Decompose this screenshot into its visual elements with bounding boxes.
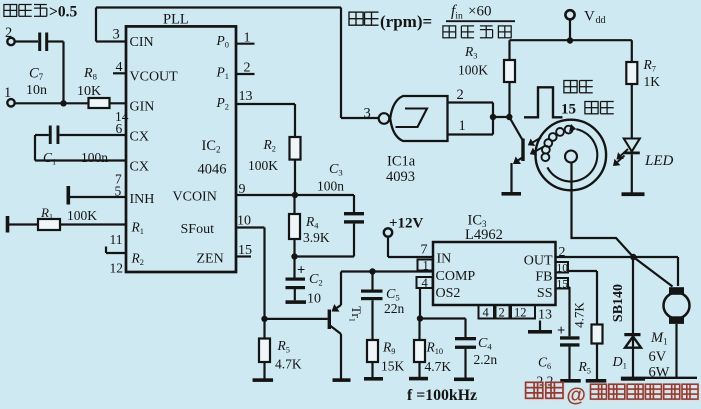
svg-text:1: 1 <box>244 31 251 46</box>
svg-text:6V: 6V <box>649 349 667 365</box>
svg-text:4.7K: 4.7K <box>425 359 452 374</box>
svg-text:SB140: SB140 <box>611 284 626 322</box>
svg-text:V: V <box>584 9 595 25</box>
svg-text:IC1a: IC1a <box>387 154 416 170</box>
svg-text:22n: 22n <box>384 301 405 316</box>
svg-text:100n: 100n <box>317 179 344 194</box>
svg-text:CIN: CIN <box>130 35 154 50</box>
svg-text:10: 10 <box>237 214 251 229</box>
svg-text:2: 2 <box>244 61 251 76</box>
svg-text:4: 4 <box>483 306 490 320</box>
svg-text:INH: INH <box>130 192 155 207</box>
svg-text:12: 12 <box>110 261 124 276</box>
svg-text:+: + <box>297 263 305 279</box>
svg-text:100n: 100n <box>81 150 108 165</box>
svg-text:4046: 4046 <box>198 162 227 178</box>
svg-text:6W: 6W <box>649 365 670 381</box>
svg-text:2.2n: 2.2n <box>474 352 498 367</box>
svg-text:PLL: PLL <box>163 12 189 28</box>
svg-text:1: 1 <box>423 259 429 273</box>
svg-text:4: 4 <box>116 60 123 75</box>
svg-text:10n: 10n <box>26 83 47 98</box>
svg-text:1: 1 <box>459 118 466 134</box>
svg-text:4: 4 <box>422 276 429 290</box>
svg-text:L4962: L4962 <box>465 227 503 243</box>
svg-text:13: 13 <box>239 89 253 104</box>
svg-text:2: 2 <box>457 87 464 103</box>
svg-text:SFout: SFout <box>181 222 215 237</box>
svg-text:15K: 15K <box>381 359 405 374</box>
svg-text:GIN: GIN <box>130 100 155 115</box>
svg-text:FB: FB <box>535 270 552 285</box>
svg-text:OUT: OUT <box>524 254 553 269</box>
svg-text:@: @ <box>566 384 586 406</box>
svg-text:IN: IN <box>437 252 452 267</box>
svg-text:4.7K: 4.7K <box>572 302 587 328</box>
svg-text:12: 12 <box>514 306 527 320</box>
svg-text:7: 7 <box>421 243 428 258</box>
svg-text:10: 10 <box>557 263 569 275</box>
svg-text:4093: 4093 <box>386 169 415 185</box>
svg-text:10: 10 <box>307 292 321 307</box>
svg-text:100K: 100K <box>248 158 278 173</box>
svg-text:CX: CX <box>130 130 149 145</box>
svg-text:VCOUT: VCOUT <box>130 70 179 85</box>
svg-text:(rpm)=: (rpm)= <box>380 12 432 31</box>
svg-text:dd: dd <box>596 15 606 26</box>
svg-text:ZEN: ZEN <box>197 252 224 267</box>
svg-text:>0.5: >0.5 <box>49 4 77 21</box>
svg-text:3.9K: 3.9K <box>303 230 330 245</box>
svg-text:2: 2 <box>499 306 505 320</box>
svg-text:1K: 1K <box>644 74 661 89</box>
svg-text:15: 15 <box>557 279 569 291</box>
svg-text:×60: ×60 <box>468 4 491 20</box>
svg-text:11: 11 <box>110 232 123 247</box>
svg-text:LED: LED <box>644 153 674 169</box>
svg-text:13: 13 <box>538 308 552 323</box>
svg-text:CX: CX <box>130 160 149 175</box>
svg-text:10K: 10K <box>77 84 101 99</box>
svg-text:SS: SS <box>537 286 553 301</box>
svg-text:VCOIN: VCOIN <box>173 190 217 205</box>
svg-text:100K: 100K <box>458 63 488 78</box>
svg-text:100K: 100K <box>67 208 97 223</box>
svg-text:3: 3 <box>113 27 120 43</box>
svg-text:+12V: +12V <box>389 216 424 232</box>
svg-text:6: 6 <box>116 121 123 136</box>
svg-text:COMP: COMP <box>436 269 476 284</box>
svg-text:15: 15 <box>561 102 576 118</box>
svg-text:f =100kHz: f =100kHz <box>407 387 477 404</box>
svg-text:4.7K: 4.7K <box>275 357 302 372</box>
svg-text:OS2: OS2 <box>436 286 461 301</box>
